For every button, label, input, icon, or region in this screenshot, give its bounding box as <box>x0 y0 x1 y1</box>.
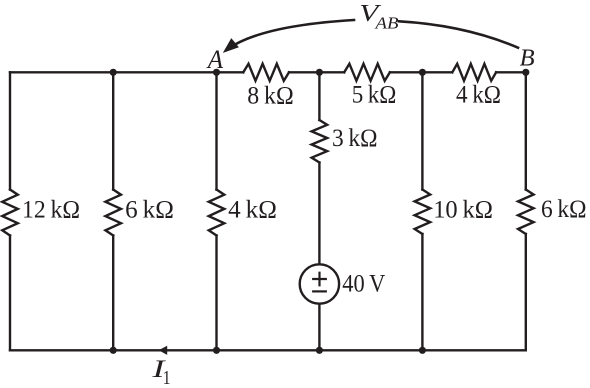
wire branch5 lower <box>421 234 423 350</box>
svg-text:AB: AB <box>374 14 399 33</box>
node dot bottom 2 <box>213 347 220 354</box>
resistor 6k left zigzag <box>105 190 121 236</box>
svg-text:6 kΩ: 6 kΩ <box>541 194 587 223</box>
wire branch6 upper <box>525 72 527 189</box>
wire branch6 lower <box>525 234 527 350</box>
wire branch2 lower <box>112 236 114 351</box>
wire top rail between 8k and 5k <box>289 71 344 73</box>
wire branch3 lower <box>215 236 217 351</box>
node dot top 4 <box>419 69 426 76</box>
resistor 8k horizontal zigzag <box>243 64 289 81</box>
node dot bottom 1 <box>110 347 117 354</box>
wire branch2 upper <box>112 72 114 189</box>
resistor 3k zigzag <box>312 120 328 163</box>
resistor R 12k zigzag <box>2 190 18 236</box>
svg-text:B: B <box>520 46 535 72</box>
svg-text:8 kΩ: 8 kΩ <box>247 81 293 110</box>
svg-text:A: A <box>206 45 223 74</box>
V_AB arrowhead at A <box>225 39 238 51</box>
wire branch4 middle <box>318 163 320 265</box>
wire top rail 4k to node B <box>496 71 526 73</box>
svg-text:6 kΩ: 6 kΩ <box>125 194 174 223</box>
voltage source V 40V circle <box>300 264 339 303</box>
wire top rail between 5k and 4k <box>390 71 452 73</box>
node dot bottom 4 <box>419 347 426 354</box>
svg-text:3 kΩ: 3 kΩ <box>332 123 378 152</box>
svg-text:10 kΩ: 10 kΩ <box>433 195 493 224</box>
wire bottom rail <box>10 349 526 351</box>
wire branch4 bottom <box>318 304 320 351</box>
node A dot <box>213 69 220 76</box>
node dot top 3 <box>316 69 323 76</box>
resistor 10k zigzag <box>415 190 431 235</box>
wire branch4 top <box>318 72 320 120</box>
node dot top 1 <box>110 69 117 76</box>
V_AB arc left segment <box>229 20 355 49</box>
resistor 6k right zigzag <box>518 190 534 235</box>
svg-text:4 kΩ: 4 kΩ <box>456 80 501 109</box>
resistor 5k horizontal zigzag <box>344 64 390 81</box>
resistor 4k vertical zigzag <box>209 190 225 236</box>
svg-text:4 kΩ: 4 kΩ <box>228 194 277 223</box>
svg-text:1: 1 <box>163 367 171 388</box>
source minus sign <box>313 290 326 292</box>
svg-text:40 V: 40 V <box>342 268 386 297</box>
resistor 4k horizontal zigzag <box>452 64 496 81</box>
wire left branch upper <box>9 72 11 189</box>
svg-text:5 kΩ: 5 kΩ <box>352 80 397 109</box>
current I1 arrowhead on bottom wire <box>159 346 168 355</box>
node B dot <box>522 69 529 76</box>
node dot bottom 3 <box>316 347 323 354</box>
V_AB arc right segment <box>399 21 518 47</box>
wire branch3 upper <box>215 72 217 189</box>
wire branch5 upper <box>421 72 423 189</box>
source plus sign <box>313 273 326 286</box>
wire top rail left (corner to 8k resistor) <box>10 71 243 73</box>
wire left branch lower <box>9 236 11 351</box>
svg-text:12 kΩ: 12 kΩ <box>22 194 80 223</box>
